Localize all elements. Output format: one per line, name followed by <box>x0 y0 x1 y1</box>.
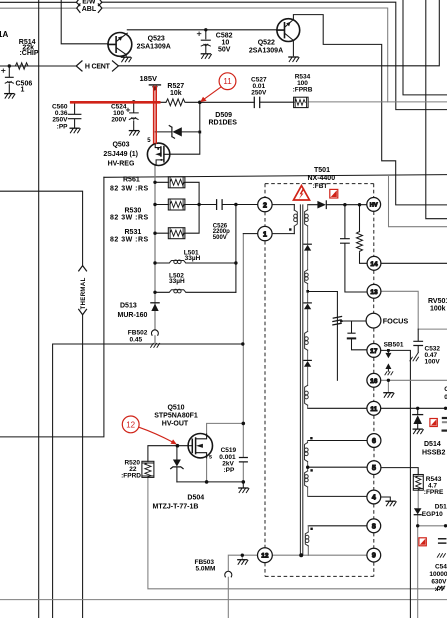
svg-text:EGP10: EGP10 <box>422 511 443 518</box>
wire C582 stub <box>205 30 207 39</box>
svg-text:H CENT: H CENT <box>85 63 111 70</box>
svg-text:HSSB2: HSSB2 <box>422 450 445 457</box>
wire pin4 row <box>308 496 390 500</box>
wire block box left <box>0 177 104 437</box>
node SB501 top <box>387 349 390 352</box>
pin circle FOCUS <box>366 313 381 328</box>
ground pin4 <box>386 501 396 506</box>
svg-text:10: 10 <box>222 40 230 47</box>
wire Q510 drain <box>207 423 244 434</box>
svg-text:R527: R527 <box>167 83 184 90</box>
node core bottom <box>299 553 303 557</box>
diode D513 <box>151 302 159 304</box>
secondary coil section1b <box>305 270 309 284</box>
wire R543 to D515 <box>417 490 420 618</box>
wire E/W net top <box>0 2 447 109</box>
svg-text:4: 4 <box>372 495 376 502</box>
capacitor C532 <box>414 341 423 345</box>
svg-text:5.0MM: 5.0MM <box>196 566 216 573</box>
equals marks right edge at D514 <box>443 417 447 419</box>
wire pin12 to winding bottom <box>272 554 367 556</box>
ground D514 <box>413 429 423 434</box>
node bank row1 <box>153 181 156 184</box>
svg-text:10000: 10000 <box>429 571 447 578</box>
svg-text::FPRD: :FPRD <box>121 472 141 479</box>
ground C582 <box>201 54 211 59</box>
svg-text:17: 17 <box>370 348 378 355</box>
variable resistor focus <box>333 317 342 325</box>
svg-text:MUR-160: MUR-160 <box>118 312 148 319</box>
wire pin14 row <box>381 262 447 264</box>
wire C526 node vertical <box>235 205 237 293</box>
capacitor C506 <box>5 66 13 93</box>
wire gray L x388 y226 <box>389 176 447 227</box>
node bank row2 <box>153 203 156 206</box>
flag THERMAL <box>79 266 87 315</box>
wire gnd bus y344 <box>53 344 243 618</box>
svg-text:185V: 185V <box>140 74 158 83</box>
pin circle 16 <box>367 373 381 387</box>
capacitor C524 <box>130 102 139 130</box>
wire source gnd row <box>177 482 243 488</box>
wire pin1 to left <box>243 233 257 235</box>
pin circle 13 <box>367 284 381 298</box>
svg-text:33µH: 33µH <box>185 255 201 262</box>
transistor Q522 <box>277 19 300 42</box>
ground C524 <box>129 131 139 136</box>
red 185V vertical trace <box>154 86 157 144</box>
pin circle 11 <box>367 401 381 415</box>
svg-text:100V: 100V <box>425 359 441 366</box>
pin circle 4 <box>367 490 381 504</box>
wire focus wiper row <box>344 320 366 322</box>
svg-text:11: 11 <box>370 406 377 413</box>
resistor R561 box <box>168 177 185 188</box>
wire y525 row <box>418 525 447 527</box>
svg-text:NX-4400: NX-4400 <box>307 175 335 182</box>
node L502 left <box>153 291 156 294</box>
wire main 185V row black part <box>160 101 293 103</box>
wire HV cap branch <box>345 205 367 292</box>
svg-text:ABL: ABL <box>82 6 97 13</box>
secondary coil section1a <box>305 210 309 226</box>
secondary coil section1c <box>305 331 309 350</box>
flag H CENT <box>76 61 118 71</box>
T501 dashed box <box>265 183 374 185</box>
ground C560 <box>70 128 80 133</box>
svg-text:250V: 250V <box>251 90 267 97</box>
resistor R543 box <box>413 475 423 491</box>
secondary coil section2b <box>305 471 309 487</box>
capacitor C527 <box>254 97 259 107</box>
node drain junction <box>242 422 246 426</box>
capacitor C519 <box>240 458 248 462</box>
capacitor C560 <box>68 102 81 128</box>
wire primary coil verticals <box>293 205 295 234</box>
svg-text:16: 16 <box>370 378 378 385</box>
svg-text:11: 11 <box>223 77 232 86</box>
svg-text:200V: 200V <box>111 117 127 124</box>
svg-text:THERMAL: THERMAL <box>81 277 87 309</box>
svg-text:50V: 50V <box>218 47 231 54</box>
pin circle 2 <box>258 197 272 211</box>
transistor Q523 <box>108 33 132 57</box>
svg-text:0.45: 0.45 <box>130 336 143 343</box>
wire vertical right V425 <box>426 0 447 219</box>
wire core lines <box>300 205 302 555</box>
node C524 on red bus <box>132 100 136 104</box>
svg-text:82 3W :RS: 82 3W :RS <box>110 214 149 221</box>
svg-text:82 3W :RS: 82 3W :RS <box>110 236 149 243</box>
pin circle 1 <box>258 226 272 240</box>
hatch right edge y555 <box>437 554 445 558</box>
wire Q523 base feed <box>61 0 108 44</box>
svg-text:D509: D509 <box>215 112 232 119</box>
svg-text:2: 2 <box>263 202 267 209</box>
capacitor HV snubber <box>341 239 350 244</box>
node pin11 row b <box>444 407 447 410</box>
flag E/W <box>76 0 102 6</box>
node R514/C506 <box>8 64 11 67</box>
wire Q510 source <box>206 458 208 482</box>
inductor L502 <box>169 289 186 293</box>
diode D514 <box>413 414 423 416</box>
svg-text:8: 8 <box>372 523 376 530</box>
wire Q522 collector stub <box>292 42 294 56</box>
svg-text:1A: 1A <box>0 30 8 39</box>
svg-text:RD1DES: RD1DES <box>209 120 238 127</box>
pin circle 9 <box>367 548 381 562</box>
secondary coil section3 <box>305 532 309 546</box>
node C519 bottom <box>242 480 246 484</box>
wire Q503 source to bank <box>154 166 156 344</box>
wire bank rows <box>155 182 258 233</box>
resistor R527 <box>166 99 185 106</box>
hatch end of R520 run <box>436 586 445 590</box>
svg-text:STP5NA80F1: STP5NA80F1 <box>154 413 198 420</box>
wiper arrow focus <box>340 319 345 322</box>
svg-text:T501: T501 <box>314 167 330 174</box>
wire HV res branch <box>360 205 368 264</box>
resistor R531 box <box>168 228 185 239</box>
red horizontal trace <box>70 101 161 104</box>
red flag B <box>430 419 437 427</box>
chassis hatch at FB502 foot <box>151 343 160 347</box>
wire Q510 gate row <box>148 446 188 462</box>
resistor R520 box <box>142 461 154 477</box>
wire Q522 emitter routing <box>293 15 447 205</box>
svg-text:630V: 630V <box>431 578 447 585</box>
node y525 b <box>444 524 447 527</box>
wire D504 stubs <box>176 446 178 482</box>
wire H CENT net <box>0 0 439 66</box>
secondary coil section1d <box>305 385 309 405</box>
wire Q523 collector to Q522 base <box>127 29 277 31</box>
node 11 junction <box>198 101 202 105</box>
ground C519 <box>239 488 249 493</box>
square sec2 polarity <box>310 437 312 439</box>
pin circle 8 <box>367 519 381 533</box>
wire pin16 row <box>381 380 447 392</box>
inductor L501 <box>169 260 186 264</box>
node FB503 gnd <box>241 554 244 557</box>
svg-text:100k: 100k <box>430 305 446 312</box>
primary coil T501 <box>294 210 298 226</box>
wire pin5 rows <box>308 467 419 474</box>
wire L501 row <box>155 262 236 264</box>
wire pin2 inside to primary <box>272 205 294 234</box>
wire pin13 outside to C532 <box>381 291 418 329</box>
wire tap to pin13 <box>308 291 338 293</box>
node C526 right <box>234 203 237 206</box>
svg-text:Q523: Q523 <box>148 36 165 43</box>
flag ABL <box>77 4 102 13</box>
svg-text:82 3W :RS: 82 3W :RS <box>110 185 149 192</box>
svg-text:2SA1309A: 2SA1309A <box>249 48 283 55</box>
node gate junction <box>176 444 180 448</box>
node pin5 tap <box>306 466 309 469</box>
wire pin1 long vertical <box>242 234 244 482</box>
svg-text:C582: C582 <box>216 33 233 40</box>
wire pin17 outside <box>381 350 411 618</box>
svg-text:14: 14 <box>370 261 378 268</box>
square sec2b polarity <box>310 469 312 471</box>
svg-text:1: 1 <box>21 87 25 94</box>
svg-text::PF: :PF <box>435 586 446 593</box>
svg-text:500V: 500V <box>213 235 227 241</box>
node gnd bus x243 <box>241 342 244 345</box>
capacitor focus <box>348 333 355 338</box>
ground pin16 stub <box>384 393 394 398</box>
wire focus VR <box>336 292 338 380</box>
svg-text::CHIP: :CHIP <box>19 50 38 57</box>
node L501 right <box>234 261 237 264</box>
ground C506 <box>5 94 15 99</box>
node bank row3 <box>153 232 156 235</box>
diode secondary 3 <box>304 359 311 361</box>
node HV row b <box>358 203 361 206</box>
wire pin6 row <box>308 440 368 442</box>
red flag C <box>419 538 426 546</box>
square primary polarity <box>289 228 291 230</box>
wire FB503 net <box>228 555 257 618</box>
svg-text::FPRE: :FPRE <box>424 489 444 496</box>
callout circle 11 <box>219 73 236 90</box>
pin circle 12 <box>258 548 273 563</box>
node source row <box>205 480 209 484</box>
wire focus cap <box>352 321 367 350</box>
wire pin8 row <box>308 525 367 527</box>
mosfet Q510 <box>188 434 212 458</box>
svg-text:33µH: 33µH <box>169 278 185 285</box>
svg-text:R561: R561 <box>123 176 140 183</box>
ferrite bead FB502 <box>152 330 159 335</box>
svg-text:E/W: E/W <box>82 0 96 5</box>
capacitor C526 <box>217 200 223 210</box>
square sec3 polarity <box>310 528 312 530</box>
svg-text:C546: C546 <box>435 563 447 570</box>
svg-text:Q510: Q510 <box>167 404 184 411</box>
wire HV row inside box <box>308 204 367 206</box>
pin circle HV <box>367 198 381 212</box>
svg-text:13: 13 <box>370 289 378 296</box>
wire L502 row <box>155 291 236 293</box>
svg-text:6: 6 <box>372 438 376 445</box>
svg-text:Q522: Q522 <box>258 40 275 47</box>
svg-text::FBT: :FBT <box>313 183 328 190</box>
node L501 left <box>153 261 156 264</box>
ground Q522 collector <box>289 57 299 62</box>
svg-text:HV-REG: HV-REG <box>108 161 135 168</box>
ground FB503 node <box>238 560 248 565</box>
diode D509 zener <box>155 131 171 133</box>
capacitor C582 <box>201 40 210 53</box>
node bank right <box>197 203 200 206</box>
resistor R530 box <box>168 199 185 210</box>
svg-text:2SA1309A: 2SA1309A <box>137 44 171 51</box>
node pin11 row a <box>416 407 419 410</box>
callout circle 12 <box>122 416 139 433</box>
spark gap SB501 <box>387 350 389 352</box>
svg-text::PP: :PP <box>57 124 69 131</box>
svg-text:9: 9 <box>372 553 376 560</box>
svg-text:R531: R531 <box>125 229 142 236</box>
wire long top line of block <box>104 175 447 178</box>
svg-text:2SJ449 (1): 2SJ449 (1) <box>103 151 138 158</box>
svg-text:250V: 250V <box>52 117 68 124</box>
svg-text:12: 12 <box>261 553 269 560</box>
node D509 right <box>198 131 201 134</box>
svg-text:MTZJ-T-77-1B: MTZJ-T-77-1B <box>153 504 199 511</box>
ferrite bead FB503 <box>225 571 232 576</box>
svg-text:12: 12 <box>126 420 135 429</box>
diode secondary 2 <box>304 302 311 304</box>
svg-text:D504: D504 <box>187 495 204 502</box>
svg-text:RV501: RV501 <box>428 298 447 305</box>
resistor R534 box <box>294 97 309 107</box>
diode D504 zener <box>173 460 181 467</box>
pin circle 6 <box>367 434 381 448</box>
red flag A <box>330 189 338 198</box>
svg-text::FPRB: :FPRB <box>293 87 313 94</box>
pin circle 14 <box>367 256 381 270</box>
wire D514 stub <box>417 408 419 428</box>
svg-text:10k: 10k <box>170 90 182 97</box>
wire winding chain links <box>307 205 309 409</box>
wire vertical right V403 <box>403 0 447 95</box>
node C582 <box>204 28 207 31</box>
warning triangle <box>294 186 310 200</box>
wire thermal branch <box>0 191 83 618</box>
svg-text:FOCUS: FOCUS <box>383 317 409 326</box>
svg-text:1: 1 <box>263 231 267 238</box>
equals marks right edge at flagC <box>439 539 446 543</box>
wire R520 bottom run <box>148 477 438 588</box>
svg-text:HV-OUT: HV-OUT <box>162 421 189 428</box>
resistor R514 <box>9 63 34 69</box>
wire ABL net (gray) <box>0 8 388 102</box>
wire y329 to edge <box>418 328 447 330</box>
ground Q523 emitter <box>121 57 131 62</box>
node pin16 <box>387 379 390 382</box>
wire left vertical x38.7 full height <box>38 0 40 618</box>
diode secondary 1 <box>304 243 311 245</box>
wire pin11 row <box>308 407 447 409</box>
svg-text:D513: D513 <box>120 302 137 309</box>
bar right edge y430 <box>443 430 447 432</box>
node HV row a <box>343 203 346 206</box>
ground C532 <box>410 353 419 361</box>
HV rectifier diode <box>317 201 326 209</box>
svg-text:Q503: Q503 <box>112 142 129 149</box>
svg-text::PP: :PP <box>224 467 236 474</box>
wire node11 vertical to D509 and Q503 drain <box>170 102 200 154</box>
secondary coil section2a <box>304 443 308 462</box>
resistor HV vertical zigzag <box>357 232 363 252</box>
supply 185V bar <box>149 84 160 86</box>
pin circle 5 <box>367 461 381 475</box>
wire bottom full gray <box>0 599 447 601</box>
pin circle 17 <box>367 344 381 358</box>
svg-text:D514: D514 <box>424 441 441 448</box>
mosfet Q503 <box>147 143 169 165</box>
svg-text:5: 5 <box>372 465 376 472</box>
wire row after R534 gray <box>308 101 447 103</box>
node y525 a <box>416 524 419 527</box>
square tap13 <box>306 290 309 293</box>
svg-text:SB501: SB501 <box>384 341 404 348</box>
diode D515 <box>414 508 422 514</box>
svg-text:HV: HV <box>370 203 378 209</box>
wire C532 stubs <box>417 329 419 353</box>
svg-text:D515: D515 <box>435 503 447 510</box>
